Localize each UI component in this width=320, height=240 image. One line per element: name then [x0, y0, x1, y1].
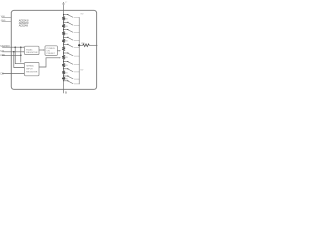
wire pin CS to serial interface [2, 73, 23, 75]
wire branch from AD0 down [20, 47, 22, 62]
ladder tap node 7 [63, 61, 64, 62]
switch SW6 [68, 53, 73, 56]
svg-text:RDAC: RDAC [26, 48, 33, 51]
resistor R8 [62, 69, 65, 75]
power-on preset box [45, 46, 57, 56]
switch SW4 [68, 38, 73, 41]
wiper bus [78, 17, 80, 84]
wire RW to terminal W [90, 44, 98, 46]
svg-text:B: B [65, 90, 67, 94]
wire preset to ladder decoder [57, 50, 59, 52]
svg-text:RS: RS [65, 41, 68, 43]
wiper wire [79, 44, 82, 46]
ladder tap node 10 [63, 80, 64, 81]
switch SW7 [68, 62, 73, 65]
resistor RW [82, 44, 89, 47]
wire RDAC register to preset [39, 49, 44, 51]
ladder tap node 4 [63, 37, 64, 38]
IC outline U1 [11, 10, 96, 89]
junction dot [13, 51, 15, 53]
svg-text:RS: RS [65, 33, 68, 35]
svg-text:REGISTER: REGISTER [26, 52, 38, 54]
switch SW2 [68, 23, 73, 26]
svg-text:1*: 1* [65, 2, 67, 4]
svg-text:REGISTER: REGISTER [26, 72, 38, 74]
wire pin AD0 [2, 54, 21, 56]
switch SW1 [68, 15, 73, 18]
ladder tap node 6 [63, 52, 64, 53]
wire pin SCL to RDAC register [2, 51, 23, 53]
RDAC register box [25, 46, 40, 54]
switch SW9 [68, 76, 73, 79]
ladder tap node 3 [63, 29, 64, 30]
resistor R9 [62, 76, 65, 80]
svg-text:GND: GND [1, 20, 6, 22]
svg-text:AD5248: AD5248 [19, 25, 29, 28]
pin VDD stub [2, 16, 12, 18]
switch SW10 [68, 81, 73, 84]
terminal B pin stub [63, 81, 65, 93]
wire serial interface up to switch array [39, 58, 60, 67]
svg-text:INPUT: INPUT [26, 69, 33, 71]
junction dot [14, 46, 16, 48]
svg-text:RS: RS [65, 72, 68, 74]
svg-text:SDA/SDI: SDA/SDI [0, 45, 10, 48]
terminal A pin stub [63, 4, 65, 15]
ladder tap node 9 [63, 75, 64, 76]
svg-text:RW: RW [81, 43, 84, 45]
ladder tap node 1 [63, 14, 64, 15]
switch SW5 [68, 45, 73, 48]
svg-text:RS: RS [65, 57, 68, 59]
svg-text:SW: SW [80, 69, 83, 71]
wire branch to interface in2 [14, 52, 24, 68]
serial interface box [25, 62, 40, 75]
ladder tap node 5 [63, 44, 64, 45]
resistor R1 [62, 15, 65, 22]
svg-text:RS: RS [65, 26, 68, 28]
wire pin SDA to RDAC register [2, 46, 23, 48]
svg-text:SERIAL: SERIAL [26, 65, 35, 68]
ladder tap node 8 [63, 68, 64, 69]
svg-text:PRESET: PRESET [47, 53, 56, 55]
pin GND stub [2, 20, 12, 22]
junction dot [20, 55, 22, 57]
resistor R4 [62, 38, 65, 44]
ladder tap node 2 [63, 22, 64, 23]
resistor R5 [62, 45, 65, 53]
wire branch to interface in1 [15, 47, 23, 64]
resistor R3 [62, 30, 65, 37]
switch SW8 [68, 69, 73, 72]
wiper junction dot [78, 44, 80, 46]
svg-text:RS: RS [65, 78, 68, 80]
svg-text:SW: SW [80, 14, 83, 16]
junction dot [20, 46, 22, 48]
resistor R7 [62, 62, 65, 69]
resistor R2 [62, 23, 65, 29]
svg-text:RS: RS [65, 65, 68, 67]
resistor R6 [62, 53, 65, 61]
svg-text:RS: RS [65, 18, 68, 20]
switch SW3 [68, 30, 73, 33]
